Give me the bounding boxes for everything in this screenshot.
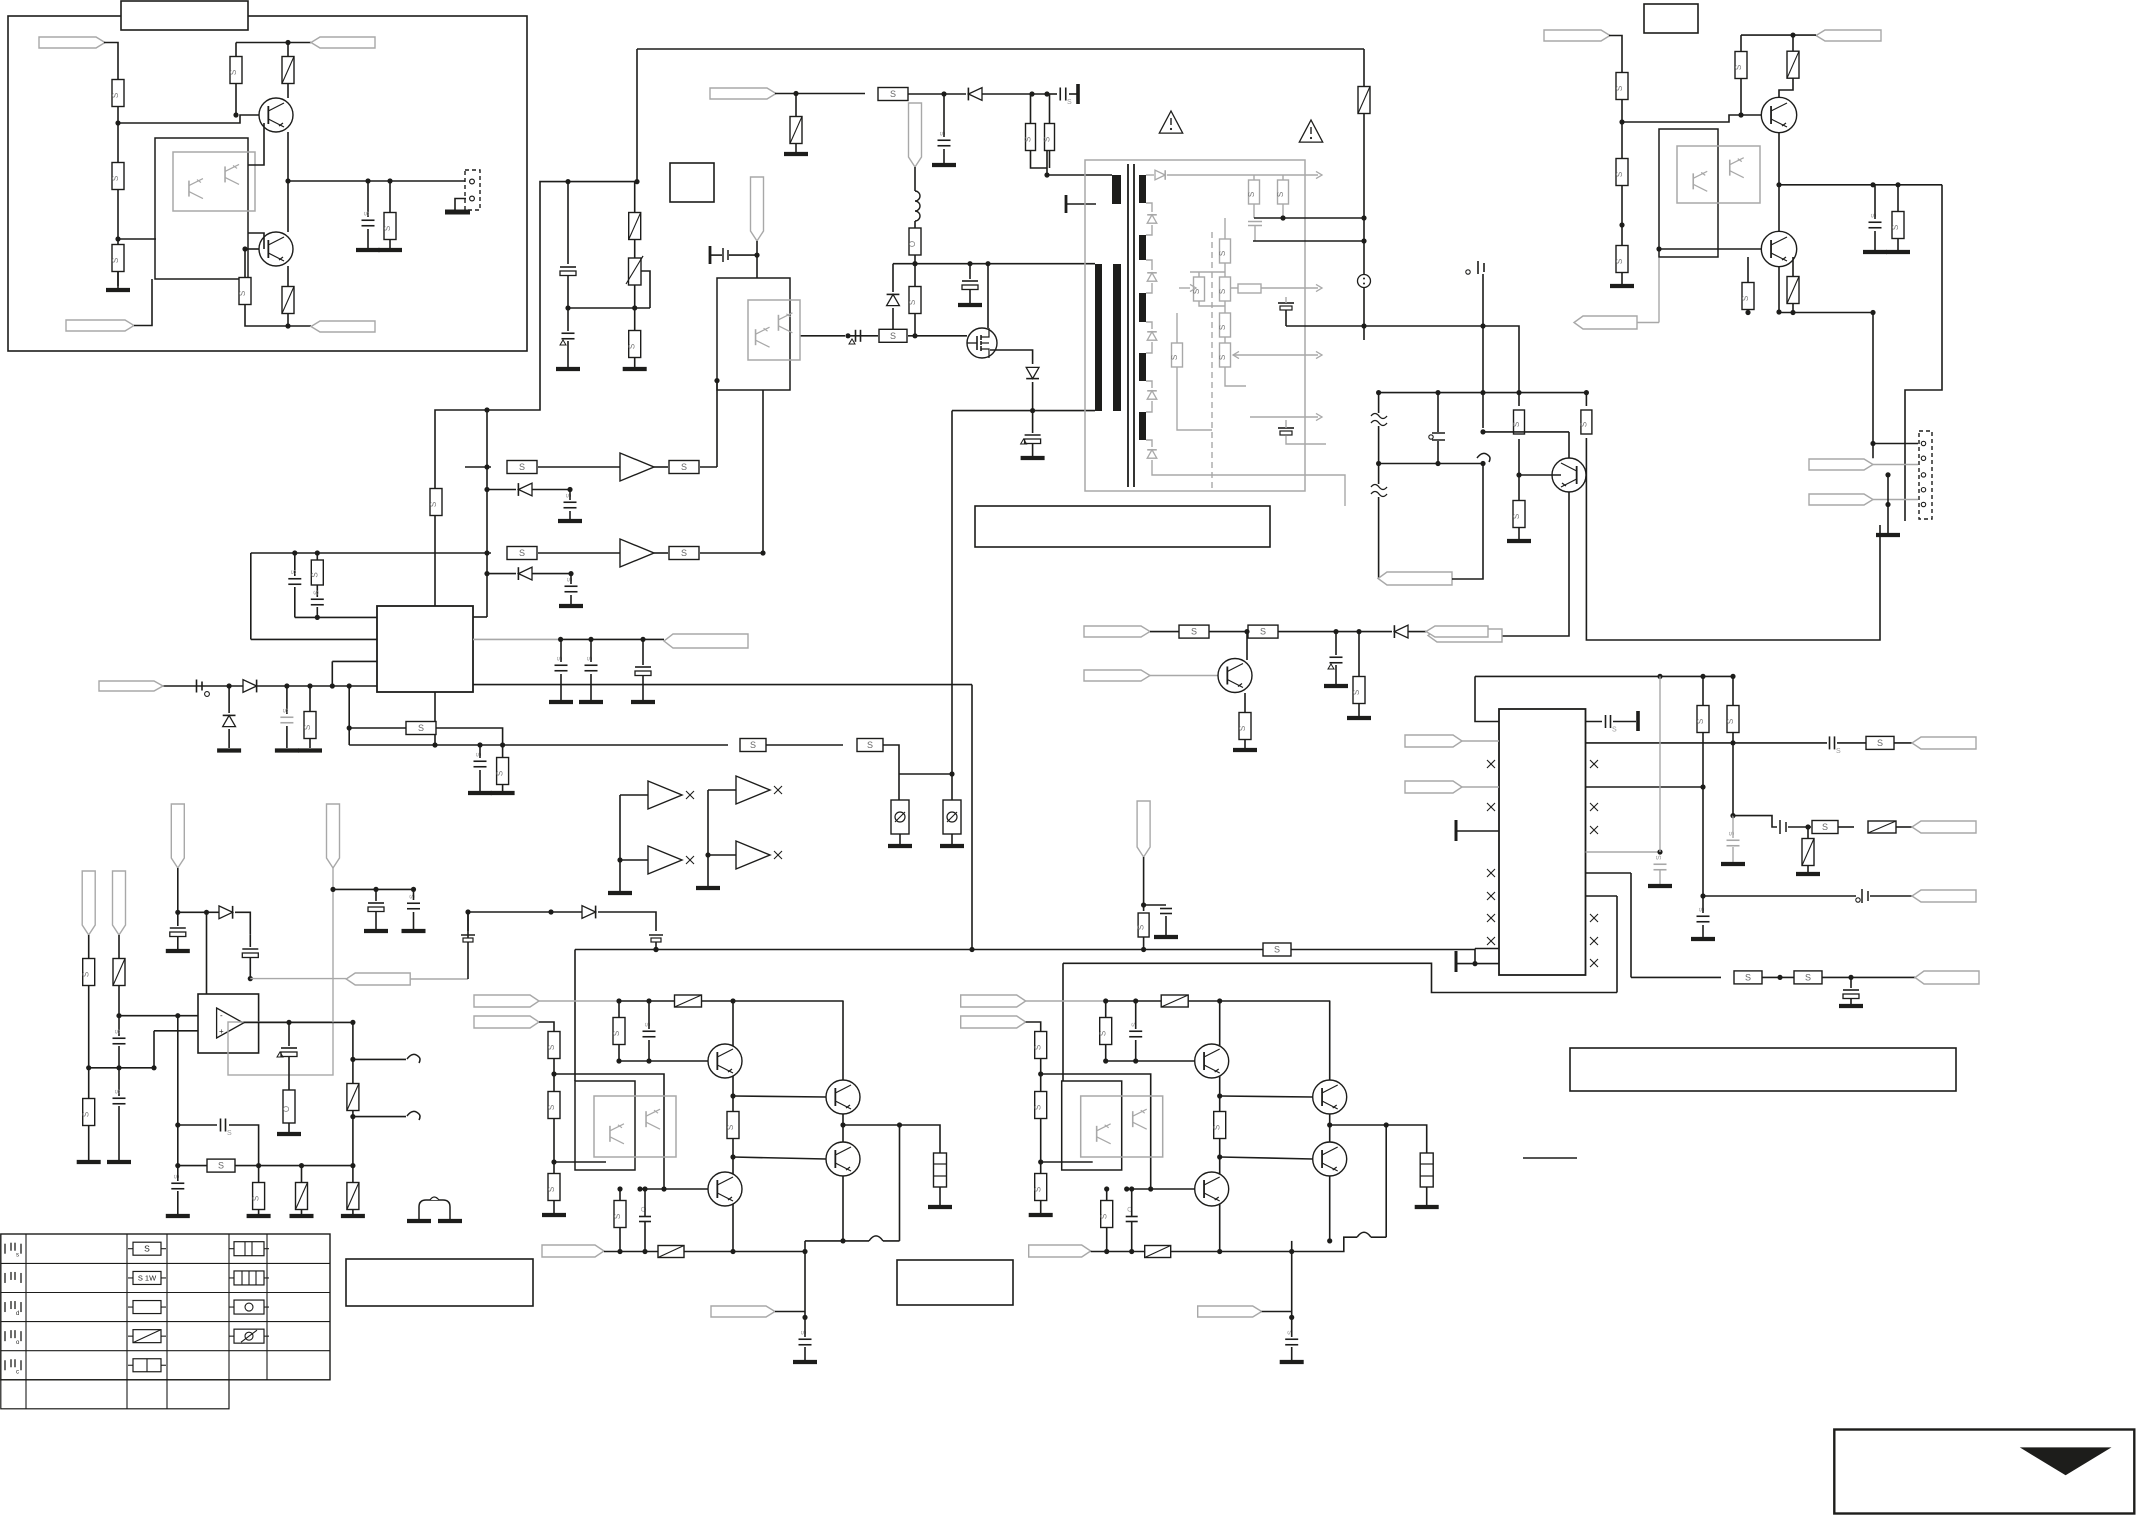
junction N81 xyxy=(1885,472,1890,477)
ground GND11 xyxy=(940,844,964,848)
fuse F1 xyxy=(909,228,921,255)
wire W107 xyxy=(1462,786,1499,788)
resistor R21 xyxy=(740,739,766,752)
buffer U8 xyxy=(736,841,770,869)
svg-text:S: S xyxy=(1218,251,1227,256)
junction N90 xyxy=(1730,674,1735,679)
wire W67 xyxy=(1286,436,1326,444)
note box B7 xyxy=(897,1260,1013,1305)
net flag NET22 xyxy=(1912,737,1976,749)
wire W111 xyxy=(1586,851,1661,853)
no-connect X4 xyxy=(1487,892,1495,900)
wire W91 xyxy=(1637,322,1659,324)
svg-text:S: S xyxy=(111,258,120,263)
junction N10 xyxy=(634,179,639,184)
wire W215 xyxy=(1385,1125,1387,1237)
resistor R19 xyxy=(304,712,316,739)
wire W7 xyxy=(287,132,289,232)
wire W14 xyxy=(435,182,568,745)
wire W55 xyxy=(1146,322,1152,329)
wire W6 xyxy=(236,42,288,44)
fusible resistor FR3 xyxy=(629,213,641,240)
wire W58 xyxy=(1146,401,1152,412)
junction N49 xyxy=(640,637,645,642)
wire W52 xyxy=(1146,225,1152,235)
transistor Q14 xyxy=(1313,1142,1347,1176)
svg-text:O: O xyxy=(908,241,917,247)
ground GND28 xyxy=(1876,533,1900,537)
legend symbol LS4 xyxy=(234,1329,264,1343)
net flag NET2 xyxy=(66,320,134,331)
legend capacitor symbol LC1 xyxy=(4,1244,6,1254)
net flag NET27 xyxy=(327,804,340,868)
inductor L1 xyxy=(915,191,920,221)
junction N127 xyxy=(1141,947,1146,952)
fuse F2 xyxy=(283,1090,295,1123)
junction N130 xyxy=(646,998,651,1003)
junction N111 xyxy=(175,1163,180,1168)
wire W129 xyxy=(88,935,90,958)
wire W113 xyxy=(1702,733,1704,896)
junction N147 xyxy=(840,1122,845,1127)
wire W209 xyxy=(1329,1114,1331,1142)
wire W184 xyxy=(843,1125,940,1153)
no-connect X5 xyxy=(1487,914,1495,922)
junction N58 xyxy=(1480,323,1485,328)
transistor Q5 xyxy=(1761,97,1796,132)
svg-text:S: S xyxy=(681,462,687,472)
net flag NET7 xyxy=(751,177,764,241)
junction N82 xyxy=(1885,502,1890,507)
junction N135 xyxy=(646,1058,651,1063)
diode D21 xyxy=(219,906,233,919)
svg-text:S: S xyxy=(82,1112,91,1117)
junction N2 xyxy=(115,236,120,241)
wire W27 xyxy=(899,773,952,775)
ground GND1 xyxy=(106,288,130,292)
wire W174 xyxy=(732,1001,734,1046)
wire W34 xyxy=(486,410,488,617)
svg-text:S: S xyxy=(1612,727,1617,734)
wire W205 xyxy=(1127,1188,1195,1190)
wire W60 xyxy=(1146,174,1154,176)
wire W76 xyxy=(1379,463,1483,465)
junction N158 xyxy=(1217,1154,1222,1159)
wire W136 xyxy=(119,1015,217,1017)
legend resistor symbol LR3 xyxy=(133,1301,161,1314)
wire W187 xyxy=(805,1240,869,1242)
wire W31 xyxy=(251,552,491,554)
wire W149 xyxy=(353,1116,406,1118)
resistor R36 xyxy=(1616,73,1628,100)
wire W18 xyxy=(908,93,944,95)
junction N16 xyxy=(941,91,946,96)
wire W170 xyxy=(554,1074,664,1189)
spark gap FV2 xyxy=(1371,485,1387,497)
resistor R56 xyxy=(1263,943,1291,956)
legend resistor symbol LR1 xyxy=(133,1242,161,1255)
capacitor C37 xyxy=(113,1097,126,1099)
no-connect X14 xyxy=(686,856,694,864)
junction N113 xyxy=(286,1020,291,1025)
capacitor C1 xyxy=(362,219,375,221)
junction N89 xyxy=(1700,674,1705,679)
wire W119 xyxy=(1631,976,1721,978)
junction N32 xyxy=(292,550,297,555)
net flag NET39 xyxy=(1198,1306,1262,1317)
svg-text:S: S xyxy=(1218,325,1227,330)
separator line W216 xyxy=(1523,1157,1577,1159)
svg-text:c: c xyxy=(16,1369,19,1375)
resistor R60 xyxy=(548,1174,560,1201)
net flag NET12 xyxy=(1544,30,1610,41)
resistor R20 xyxy=(406,722,436,735)
net flag NET3 xyxy=(311,37,375,48)
capacitor C30 xyxy=(1654,863,1667,865)
ground GND37 xyxy=(1796,872,1820,876)
legend symbol LS3 xyxy=(234,1300,264,1314)
svg-text:S: S xyxy=(1512,514,1521,519)
junction N138 xyxy=(637,1186,642,1191)
wire W8 xyxy=(288,180,466,182)
junction N84 xyxy=(1245,629,1250,634)
svg-text:S: S xyxy=(1891,225,1900,230)
wire W82 xyxy=(1586,438,1880,640)
capacitor C49 xyxy=(639,1216,651,1218)
junction N151 xyxy=(1133,998,1138,1003)
junction N129 xyxy=(616,998,621,1003)
capacitor C42 xyxy=(171,1182,184,1184)
net flag NET30 xyxy=(346,973,410,985)
wire W166 xyxy=(701,1000,844,1002)
wire W3 xyxy=(118,238,156,240)
wire W118 xyxy=(1630,873,1632,977)
legend resistor symbol LR2 xyxy=(133,1271,161,1284)
optocoupler IC2 xyxy=(748,300,800,360)
junction N101 xyxy=(705,852,710,857)
junction N24 xyxy=(890,333,895,338)
connector CN2 xyxy=(1919,431,1932,519)
junction N95 xyxy=(1730,813,1735,818)
net flag NET8 xyxy=(99,681,163,691)
wire W79 xyxy=(1518,439,1520,500)
capacitor C24 xyxy=(1466,270,1470,274)
connector CN1 xyxy=(465,170,480,210)
svg-text:S: S xyxy=(613,1214,622,1219)
wire W23 xyxy=(987,264,989,328)
capacitor C48 xyxy=(643,1030,656,1032)
resistor R12 xyxy=(909,287,921,314)
capacitor C14 xyxy=(311,598,324,600)
resistor network R64 xyxy=(934,1153,947,1187)
junction N133 xyxy=(551,1159,556,1164)
net flag NET14 xyxy=(1574,316,1637,329)
junction N31 xyxy=(484,464,489,469)
ground GND25 xyxy=(1610,284,1634,288)
wire W20 xyxy=(893,263,1095,265)
junction N92 xyxy=(1700,784,1705,789)
wire W110 xyxy=(1456,830,1499,832)
wire W38 xyxy=(251,638,377,640)
svg-text:S: S xyxy=(867,740,873,750)
diode D6 xyxy=(223,715,236,726)
wire W144 xyxy=(229,1125,259,1166)
wire W208 xyxy=(1291,1241,1293,1318)
output hook J1 xyxy=(1477,453,1490,462)
junction N94 xyxy=(1700,893,1705,898)
wire W39 xyxy=(332,660,377,662)
resistor R13 xyxy=(879,329,907,342)
wire W130 xyxy=(88,986,90,1098)
junction N169 xyxy=(1327,1238,1332,1243)
junction N40 xyxy=(568,571,573,576)
wire W99 xyxy=(1887,475,1889,533)
capacitor C29 xyxy=(1829,736,1831,749)
resistor R37 xyxy=(1616,159,1628,186)
svg-text:S: S xyxy=(82,972,91,977)
wire W21 xyxy=(848,335,878,337)
wire W185 xyxy=(842,1176,844,1241)
resistor R33 xyxy=(1514,410,1525,434)
wire W142 xyxy=(177,1016,179,1166)
buffer U6 xyxy=(648,846,682,874)
resistor R42 xyxy=(1179,625,1209,638)
net flag NET17 xyxy=(1084,626,1150,637)
junction N74 xyxy=(1870,182,1875,187)
junction N12 xyxy=(432,742,437,747)
chassis bar GND32 xyxy=(1636,711,1640,731)
svg-text:S: S xyxy=(1034,1187,1043,1192)
transistor Q2 xyxy=(259,232,293,266)
junction N97 xyxy=(1777,975,1782,980)
transistor Q6 xyxy=(1761,231,1796,266)
net flag NET6 xyxy=(909,103,922,167)
junction N3 xyxy=(285,40,290,45)
svg-text:S: S xyxy=(313,590,320,595)
wire W44 xyxy=(473,638,561,640)
ground GND15 xyxy=(559,604,583,608)
electrolytic capacitor C9 xyxy=(1025,434,1041,436)
wire W115 xyxy=(1733,816,1777,827)
wire W212 xyxy=(1329,1001,1331,1080)
wire W92 xyxy=(1658,258,1660,323)
wire W69 xyxy=(1152,460,1306,475)
svg-text:S: S xyxy=(429,502,438,507)
junction N114 xyxy=(350,1020,355,1025)
resistor R22 xyxy=(857,739,883,752)
svg-text:S: S xyxy=(1100,1214,1109,1219)
legend resistor symbol LR4 xyxy=(133,1330,161,1343)
ground GND6 xyxy=(623,367,647,371)
net flag NET33 xyxy=(474,1016,539,1028)
resistor R47 xyxy=(1697,706,1709,733)
resistor R62 xyxy=(727,1112,739,1139)
trimmer RV1 xyxy=(629,258,642,285)
net flag NET35 xyxy=(711,1306,775,1317)
wire W139 xyxy=(235,912,250,935)
fusible resistor FR1 xyxy=(282,57,294,84)
diode D20 xyxy=(1394,625,1408,638)
junction N8 xyxy=(242,246,247,251)
junction N9 xyxy=(285,323,290,328)
junction N156 xyxy=(1133,1058,1138,1063)
svg-text:S: S xyxy=(1024,137,1033,142)
legend capacitor symbol LC4 xyxy=(4,1331,6,1341)
svg-text:S: S xyxy=(111,93,120,98)
fusible resistor FR8 xyxy=(1787,51,1799,78)
capacitor C53 xyxy=(1285,1338,1298,1340)
optocoupler IC4 xyxy=(594,1096,676,1157)
wiring loop W89 xyxy=(1659,129,1718,257)
net flag NET36 xyxy=(961,995,1026,1007)
ground GND41 xyxy=(696,886,720,890)
junction N109 xyxy=(248,976,253,981)
warning symbol WRN1 xyxy=(1159,111,1182,133)
net flag NET18 xyxy=(1426,626,1488,637)
resistor R34 xyxy=(1581,410,1592,434)
ground GND16 xyxy=(217,748,241,752)
svg-text:S: S xyxy=(383,226,392,231)
wire W102 xyxy=(1150,675,1218,677)
capacitor C25 xyxy=(1429,435,1433,439)
ground GND12 xyxy=(888,844,912,848)
capacitor C3 xyxy=(562,332,575,334)
wire W97 xyxy=(1873,464,1918,466)
wire W189 xyxy=(899,1125,901,1241)
junction N105 xyxy=(151,1065,156,1070)
svg-text:S: S xyxy=(1615,172,1624,177)
jumper JP1 xyxy=(419,1200,450,1219)
diode D7 xyxy=(243,680,257,693)
wire W63 xyxy=(1253,240,1364,242)
junction N144 xyxy=(642,1249,647,1254)
junction N98 xyxy=(1848,975,1853,980)
junction N44 xyxy=(284,683,289,688)
wire W75 xyxy=(1379,392,1587,394)
wire W173 xyxy=(619,1060,708,1062)
transformer secondary winding T5 xyxy=(1139,175,1146,203)
ground GND57 xyxy=(793,1360,817,1364)
junction N28 xyxy=(949,771,954,776)
wire W167 xyxy=(539,1022,554,1032)
net flag NET4 xyxy=(311,321,375,332)
ground GND17 xyxy=(275,748,299,752)
wire W168 xyxy=(553,1059,555,1091)
no-connect X12 xyxy=(1590,959,1598,967)
wire W155 xyxy=(468,911,582,913)
wire W154 xyxy=(467,912,469,979)
junction N110 xyxy=(175,1122,180,1127)
capacitor C4 xyxy=(938,139,951,141)
no-connect X13 xyxy=(686,791,694,799)
svg-text:S: S xyxy=(238,291,247,296)
logo box B10 xyxy=(1834,1430,2134,1514)
resistor R32 xyxy=(1220,343,1231,367)
isolation boundary T2 xyxy=(1211,232,1213,491)
junction N30 xyxy=(714,378,719,383)
wire W59 xyxy=(1146,440,1152,447)
svg-text:S: S xyxy=(1213,1125,1222,1130)
legend resistor symbol LR5 xyxy=(133,1359,161,1372)
buffer U1 xyxy=(620,453,654,481)
capacitor C27 xyxy=(1330,656,1343,658)
resistor R38 xyxy=(1616,246,1628,273)
capacitor C51 xyxy=(1129,1030,1142,1032)
transistor Q9 xyxy=(826,1080,860,1114)
electrolytic capacitor C39 xyxy=(242,948,258,950)
wire W114 xyxy=(1732,743,1734,816)
resistor R40 xyxy=(1892,212,1904,239)
wire W40 xyxy=(331,661,333,686)
chassis bar GND39 xyxy=(1455,951,1458,972)
svg-text:S: S xyxy=(547,1187,556,1192)
svg-text:S 1W: S 1W xyxy=(138,1273,157,1282)
ground GND60 xyxy=(1280,1360,1304,1364)
wire W36 xyxy=(487,573,516,575)
wire W164 xyxy=(539,1000,619,1002)
resistor R53 xyxy=(83,1099,95,1126)
svg-text:S: S xyxy=(1352,690,1361,695)
diode D1 xyxy=(968,88,982,101)
wire W137 xyxy=(177,868,179,912)
wire W93 xyxy=(1779,312,1873,314)
wire W141 xyxy=(250,978,346,980)
fusible resistor FR15 xyxy=(347,1183,359,1210)
transistor Q1 xyxy=(259,98,293,132)
svg-text:S: S xyxy=(1579,422,1588,427)
wire W152 xyxy=(333,888,414,890)
resistor R15 xyxy=(669,461,699,474)
svg-text:S: S xyxy=(1170,355,1179,360)
wire W124 xyxy=(620,859,648,861)
wire W33 xyxy=(762,390,764,553)
wire W191 xyxy=(1106,1000,1162,1002)
wire W194 xyxy=(1040,1059,1042,1091)
ground GND58 xyxy=(1029,1213,1053,1217)
junction N23 xyxy=(985,261,990,266)
net flag NET13 xyxy=(1816,30,1881,41)
svg-text:S: S xyxy=(1276,192,1285,197)
wire W200 xyxy=(1219,1001,1221,1046)
junction N163 xyxy=(1104,1249,1109,1254)
transistor Q15 xyxy=(1195,1172,1229,1206)
junction N88 xyxy=(1657,674,1662,679)
junction N83 xyxy=(1870,441,1875,446)
ground GND46 xyxy=(166,1214,190,1218)
buffer U7 xyxy=(736,776,770,804)
wire W199 xyxy=(1106,1060,1195,1062)
svg-text:S: S xyxy=(303,725,312,730)
wire W132 xyxy=(118,986,120,1036)
wire W207 xyxy=(1091,1251,1132,1253)
wire hop W214 xyxy=(1357,1232,1371,1237)
junction N132 xyxy=(551,1071,556,1076)
wire W83 xyxy=(1609,36,1622,285)
net flag NET28 xyxy=(82,871,95,935)
ground GND29 xyxy=(1324,684,1348,688)
wire W42 xyxy=(348,686,350,745)
junction N50 xyxy=(347,725,352,730)
junction N42 xyxy=(330,683,335,688)
wire W117 xyxy=(1586,872,1632,874)
capacitor C36 xyxy=(113,1037,126,1039)
wire W53 xyxy=(1146,260,1152,270)
no-connect X11 xyxy=(1590,937,1598,945)
resistor R63 xyxy=(614,1201,626,1228)
wire W48 xyxy=(349,727,406,729)
junction N65 xyxy=(1435,461,1440,466)
svg-text:S: S xyxy=(1696,719,1705,724)
